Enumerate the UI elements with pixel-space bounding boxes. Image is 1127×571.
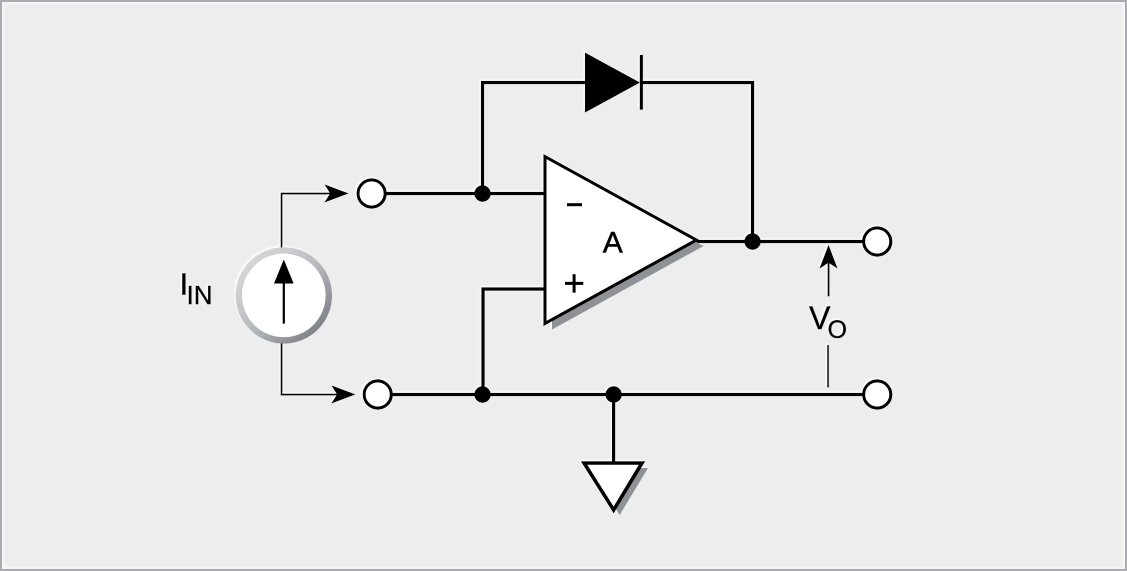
svg-text:A: A: [603, 227, 623, 260]
svg-text:IN: IN: [187, 280, 213, 310]
svg-text:O: O: [828, 316, 847, 344]
